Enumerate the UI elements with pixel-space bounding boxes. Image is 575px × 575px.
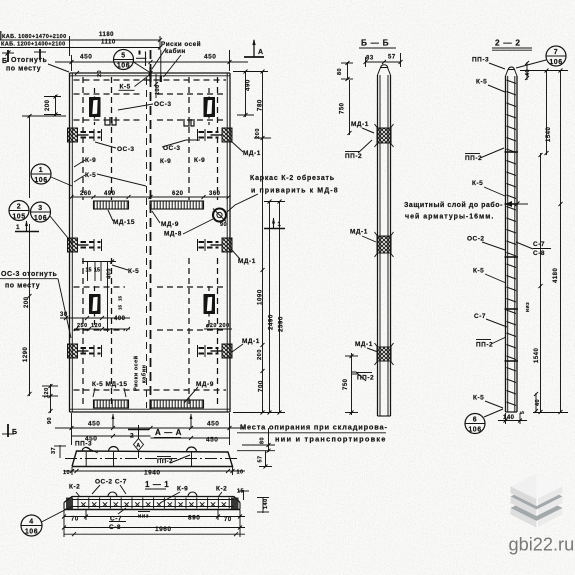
svg-text:200: 200	[255, 128, 261, 139]
svg-text:Риски осей: Риски осей	[133, 355, 140, 391]
svg-text:90: 90	[220, 222, 227, 228]
svg-text:С-7: С-7	[474, 313, 486, 320]
svg-text:С-7: С-7	[533, 241, 545, 248]
svg-text:К-5 МД-15: К-5 МД-15	[92, 381, 128, 388]
svg-text:1090: 1090	[257, 289, 264, 305]
svg-text:10: 10	[63, 470, 70, 476]
svg-text:200: 200	[257, 349, 263, 360]
svg-text:А: А	[258, 49, 264, 56]
svg-text:5: 5	[520, 411, 526, 414]
svg-text:ПП-2: ПП-2	[465, 155, 482, 162]
svg-text:1290: 1290	[23, 346, 29, 362]
svg-text:106: 106	[25, 529, 38, 536]
svg-text:Б: Б	[2, 58, 8, 65]
svg-text:МД-9: МД-9	[161, 221, 179, 228]
svg-text:1: 1	[16, 224, 20, 231]
svg-text:400: 400	[114, 316, 126, 322]
svg-text:1: 1	[278, 222, 282, 228]
svg-text:10: 10	[237, 470, 244, 476]
svg-text:МД-15: МД-15	[113, 219, 135, 226]
svg-text:140: 140	[503, 415, 515, 421]
svg-text:20: 20	[97, 70, 103, 77]
svg-text:ОС-3 отогнуть: ОС-3 отогнуть	[1, 271, 58, 278]
svg-text:40: 40	[525, 69, 531, 76]
svg-text:Б — Б: Б — Б	[361, 38, 389, 48]
svg-text:106: 106	[34, 215, 47, 222]
svg-text:490: 490	[104, 191, 116, 197]
svg-text:490: 490	[245, 79, 252, 91]
svg-text:К-5: К-5	[472, 180, 483, 187]
svg-text:15: 15	[86, 268, 92, 274]
svg-text:А — А: А — А	[155, 428, 182, 437]
svg-text:МД-1: МД-1	[350, 229, 368, 236]
svg-text:К-9: К-9	[177, 486, 188, 493]
svg-text:низ: низ	[525, 302, 531, 312]
svg-text:450: 450	[80, 54, 92, 61]
svg-text:200: 200	[45, 99, 51, 111]
svg-text:Риски осей: Риски осей	[161, 40, 201, 48]
svg-text:90: 90	[47, 417, 53, 424]
svg-text:Защитный слой до рабо-: Защитный слой до рабо-	[404, 201, 503, 209]
svg-text:140: 140	[263, 498, 269, 509]
svg-text:106: 106	[117, 63, 130, 70]
svg-text:1110: 1110	[101, 40, 116, 46]
svg-text:кабин: кабин	[165, 47, 186, 55]
svg-text:2 — 2: 2 — 2	[495, 38, 521, 48]
svg-text:1180: 1180	[99, 32, 114, 38]
svg-text:1 — 1: 1 — 1	[145, 480, 169, 489]
svg-text:КАБ. 1080+1470+2100: КАБ. 1080+1470+2100	[2, 34, 67, 40]
svg-text:К-5: К-5	[120, 84, 131, 91]
svg-text:15: 15	[94, 268, 100, 274]
svg-text:ПП-2: ПП-2	[345, 153, 362, 160]
svg-text:С-8: С-8	[533, 250, 545, 257]
svg-text:МД-1: МД-1	[243, 150, 261, 157]
svg-text:620: 620	[172, 191, 184, 197]
svg-text:ПП-3: ПП-3	[75, 441, 92, 448]
svg-text:450: 450	[207, 421, 219, 428]
svg-text:ОС-2: ОС-2	[467, 236, 485, 243]
svg-text:450: 450	[88, 421, 100, 428]
svg-text:106: 106	[549, 59, 562, 66]
svg-text:2: 2	[17, 204, 21, 211]
svg-text:Каркас К-2 обрезать: Каркас К-2 обрезать	[250, 174, 335, 182]
svg-text:360: 360	[209, 191, 221, 197]
svg-text:700: 700	[258, 380, 265, 392]
svg-text:ПП-3: ПП-3	[472, 57, 489, 64]
svg-text:МД-8: МД-8	[164, 231, 182, 238]
svg-text:6: 6	[473, 417, 477, 424]
svg-text:Отогнуть: Отогнуть	[11, 57, 47, 64]
svg-text:83: 83	[366, 56, 374, 62]
svg-text:нии и транспортировке: нии и транспортировке	[275, 435, 387, 444]
svg-text:37: 37	[51, 447, 57, 454]
svg-text:К-2: К-2	[216, 486, 227, 493]
svg-text:57: 57	[388, 55, 396, 61]
svg-text:1: 1	[39, 167, 43, 174]
svg-text:4: 4	[29, 519, 33, 526]
svg-text:15: 15	[118, 304, 123, 310]
svg-text:К-2: К-2	[69, 484, 80, 491]
svg-text:4180: 4180	[553, 267, 559, 283]
svg-text:К-9: К-9	[85, 157, 96, 164]
svg-text:МД-1: МД-1	[242, 338, 260, 345]
svg-text:1940: 1940	[144, 470, 160, 477]
svg-text:200: 200	[24, 296, 30, 308]
svg-text:К-9: К-9	[194, 157, 205, 164]
svg-text:450: 450	[204, 54, 216, 61]
svg-text:2590: 2590	[278, 316, 285, 332]
svg-text:gbi22.ru: gbi22.ru	[509, 535, 575, 555]
svg-text:К-5: К-5	[473, 395, 484, 402]
svg-text:К-5: К-5	[473, 268, 484, 275]
svg-text:106: 106	[34, 177, 47, 184]
svg-text:120: 120	[91, 323, 102, 329]
svg-text:106: 106	[468, 427, 481, 434]
svg-text:80: 80	[337, 68, 343, 75]
svg-text:750: 750	[340, 102, 346, 114]
svg-text:ОС-2 С-7: ОС-2 С-7	[95, 479, 127, 486]
svg-text:Б: Б	[12, 429, 18, 436]
svg-text:МД-1: МД-1	[238, 258, 256, 265]
svg-text:70: 70	[224, 517, 232, 523]
svg-text:15: 15	[118, 295, 123, 301]
svg-text:Места опирания при складирова-: Места опирания при складирова-	[240, 423, 388, 432]
svg-text:кабин: кабин	[141, 365, 148, 383]
svg-text:МД-1: МД-1	[355, 341, 373, 348]
svg-text:105: 105	[12, 214, 25, 221]
svg-text:57: 57	[258, 455, 264, 462]
svg-text:890: 890	[188, 515, 200, 522]
svg-text:1540: 1540	[534, 347, 540, 363]
svg-text:К-5: К-5	[476, 79, 487, 86]
svg-text:ОС-3: ОС-3	[117, 146, 135, 153]
svg-text:260: 260	[80, 191, 92, 197]
svg-text:ПП-2: ПП-2	[476, 342, 493, 349]
svg-text:А: А	[136, 443, 140, 449]
svg-text:МД-1: МД-1	[351, 121, 369, 128]
svg-text:780: 780	[257, 99, 264, 111]
svg-text:чей арматуры-16мм.: чей арматуры-16мм.	[405, 213, 494, 221]
svg-text:ПП-2: ПП-2	[157, 459, 173, 465]
svg-text:120: 120	[44, 387, 50, 398]
svg-text:по месту: по месту	[6, 66, 41, 73]
svg-text:К-5: К-5	[85, 172, 96, 179]
svg-text:2490: 2490	[268, 314, 275, 330]
svg-text:К-9: К-9	[160, 158, 171, 165]
svg-text:и приварить к МД-8: и приварить к МД-8	[251, 188, 339, 195]
svg-text:80: 80	[260, 437, 266, 444]
svg-text:1540: 1540	[546, 126, 552, 142]
svg-text:5: 5	[121, 53, 125, 60]
svg-text:ОС-3: ОС-3	[154, 101, 172, 108]
svg-text:750: 750	[343, 378, 349, 390]
svg-text:МД-9: МД-9	[196, 381, 214, 388]
svg-text:3: 3	[38, 205, 42, 212]
svg-text:по месту: по месту	[5, 283, 40, 290]
svg-text:КАБ. 1200+1400+2100: КАБ. 1200+1400+2100	[1, 42, 66, 48]
svg-text:250: 250	[77, 323, 88, 329]
svg-text:К-5: К-5	[128, 268, 139, 275]
svg-text:⌀20 200: ⌀20 200	[206, 323, 230, 329]
svg-text:7: 7	[554, 49, 558, 56]
svg-text:70: 70	[71, 517, 79, 523]
